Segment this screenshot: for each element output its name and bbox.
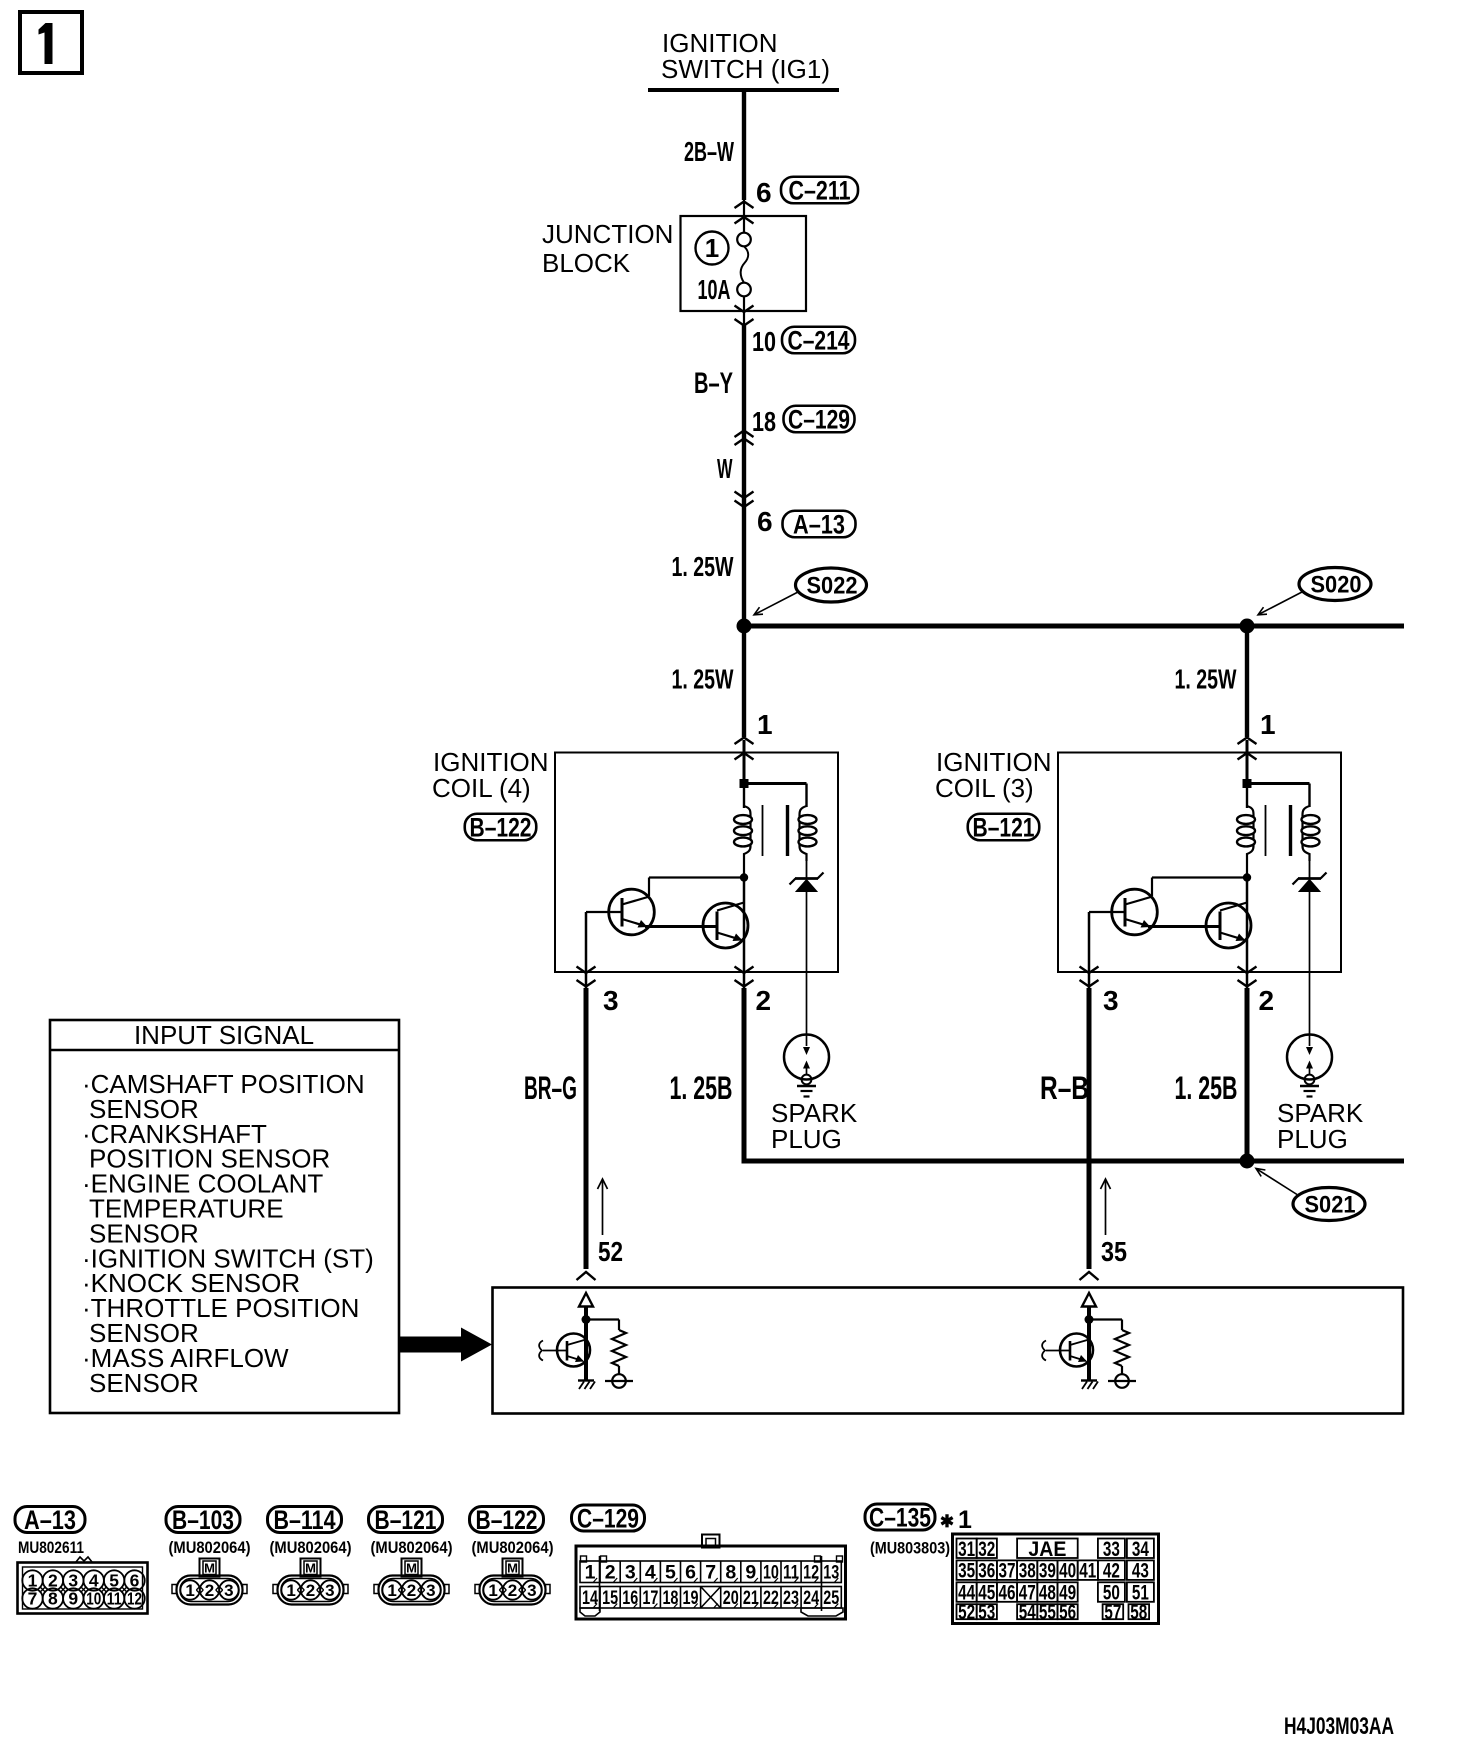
svg-text:6: 6 (757, 506, 773, 537)
svg-text:S021: S021 (1305, 1192, 1356, 1219)
svg-text:SENSOR: SENSOR (89, 1368, 199, 1398)
svg-text:H4J03M03AA: H4J03M03AA (1284, 1713, 1394, 1740)
svg-text:34: 34 (1132, 1538, 1149, 1561)
pin 52 arrow (602, 1180, 604, 1235)
svg-text:2: 2 (1259, 985, 1275, 1016)
svg-text:B–121: B–121 (375, 1505, 437, 1535)
connector B–121 (369, 1507, 443, 1533)
svg-text:8: 8 (48, 1589, 58, 1609)
svg-text:1. 25W: 1. 25W (1175, 664, 1237, 695)
svg-text:10A: 10A (698, 274, 731, 305)
junction block box (681, 216, 807, 311)
svg-text:PLUG: PLUG (1277, 1124, 1348, 1154)
svg-text:2: 2 (756, 985, 772, 1016)
svg-text:39: 39 (1039, 1560, 1056, 1583)
pin 3 wire (584, 988, 589, 1269)
label S020 (1299, 568, 1371, 601)
svg-text:(MU802064): (MU802064) (270, 1538, 352, 1557)
svg-text:35: 35 (1101, 1236, 1127, 1267)
svg-text:10: 10 (752, 326, 776, 357)
svg-text:5: 5 (665, 1562, 676, 1584)
svg-text:58: 58 (1130, 1601, 1147, 1624)
svg-text:46: 46 (999, 1582, 1016, 1605)
svg-text:32: 32 (978, 1538, 995, 1561)
ECU box (493, 1288, 1404, 1414)
svg-text:6: 6 (685, 1562, 696, 1584)
svg-text:6: 6 (756, 177, 772, 208)
svg-text:4: 4 (645, 1562, 656, 1584)
chassis ground (578, 1379, 594, 1381)
svg-text:3: 3 (527, 1581, 536, 1600)
primary winding (1246, 787, 1248, 808)
node (1085, 1315, 1094, 1324)
connector C-214 crossing (735, 306, 754, 313)
svg-text:1: 1 (185, 1581, 194, 1600)
svg-text:37: 37 (999, 1560, 1016, 1583)
secondary winding (800, 806, 807, 861)
page number box 1 (20, 12, 82, 73)
svg-text:1: 1 (585, 1562, 596, 1584)
ECU driver for coil 4 (pin 52) (539, 1293, 633, 1389)
svg-text:B–122: B–122 (470, 813, 532, 843)
svg-text:7: 7 (28, 1589, 38, 1609)
transistor (557, 1334, 590, 1367)
svg-text:2: 2 (306, 1581, 315, 1600)
zener diode (1309, 861, 1311, 878)
svg-text:B–Y: B–Y (694, 367, 733, 400)
svg-text:S022: S022 (807, 573, 858, 600)
bus wire top (744, 624, 1404, 629)
svg-text:43: 43 (1132, 1560, 1149, 1583)
svg-text:18: 18 (752, 406, 776, 437)
fuse 10A (743, 200, 745, 233)
bus wire bottom (742, 1159, 1405, 1164)
svg-text:36: 36 (978, 1560, 995, 1583)
svg-text:1: 1 (958, 1506, 972, 1534)
svg-text:3: 3 (625, 1562, 636, 1584)
connector A-13 (15, 1507, 85, 1533)
svg-text:A–13: A–13 (793, 510, 845, 540)
terminal circle (612, 1374, 626, 1388)
svg-text:(MU803803): (MU803803) (870, 1539, 950, 1558)
pin 2 crossing (1238, 967, 1257, 974)
svg-text:R–B: R–B (1040, 1070, 1089, 1106)
pin 1 crossing (1238, 738, 1257, 745)
lead to spark plug (1309, 891, 1311, 1046)
svg-text:COIL (4): COIL (4) (432, 773, 531, 803)
svg-text:B–114: B–114 (274, 1505, 336, 1535)
splice S022 node (737, 619, 752, 634)
driver trunk (1246, 878, 1249, 990)
driver trunk (743, 878, 746, 990)
ignition coil 3 circuit (1058, 738, 1341, 1281)
svg-text:1. 25B: 1. 25B (670, 1070, 733, 1106)
svg-text:40: 40 (1059, 1560, 1076, 1583)
connector B–122 (470, 1507, 544, 1533)
svg-text:3: 3 (426, 1581, 435, 1600)
splice S021 node (1240, 1154, 1255, 1169)
svg-text:W: W (717, 453, 733, 484)
connector C-129 crossing (735, 431, 754, 438)
svg-text:3: 3 (1103, 985, 1119, 1016)
svg-text:1: 1 (705, 233, 719, 263)
svg-text:42: 42 (1103, 1560, 1120, 1583)
input triangle (1082, 1293, 1096, 1307)
svg-text:1: 1 (286, 1581, 295, 1600)
svg-text:M: M (406, 1561, 417, 1576)
svg-text:MU802611: MU802611 (18, 1538, 84, 1557)
transformer core (1265, 805, 1267, 856)
svg-text:52: 52 (958, 1601, 975, 1624)
Q1 emitter to Q2 base (1148, 925, 1220, 928)
spark plug (1287, 1035, 1332, 1080)
svg-text:41: 41 (1079, 1560, 1096, 1583)
node square (740, 779, 749, 788)
svg-text:B–121: B–121 (973, 813, 1035, 843)
coil box (555, 753, 838, 973)
transistor Q1 (1112, 889, 1158, 935)
pin 3 wire (1087, 988, 1092, 1269)
svg-text:56: 56 (1059, 1601, 1076, 1624)
spark plug (784, 1035, 829, 1080)
svg-text:8: 8 (725, 1562, 736, 1584)
ECU connector crossing (577, 1272, 596, 1280)
svg-text:A–13: A–13 (24, 1505, 76, 1535)
pin 1 crossing (735, 738, 754, 745)
node dot primary/driver (1243, 873, 1251, 881)
svg-text:BLOCK: BLOCK (542, 248, 631, 278)
svg-text:(MU802064): (MU802064) (169, 1538, 251, 1557)
fuse 1 circled label (696, 232, 729, 265)
svg-text:52: 52 (598, 1236, 623, 1267)
connector C-135 (865, 1504, 935, 1530)
svg-text:INPUT SIGNAL: INPUT SIGNAL (134, 1020, 314, 1050)
terminal circle (1115, 1374, 1129, 1388)
resistor (618, 1320, 620, 1331)
connector B–103 (166, 1507, 240, 1533)
svg-text:B–103: B–103 (172, 1505, 234, 1535)
svg-text:38: 38 (1019, 1560, 1036, 1583)
svg-text:11: 11 (107, 1589, 122, 1609)
svg-text:C–211: C–211 (789, 176, 851, 206)
svg-text:2: 2 (605, 1562, 616, 1584)
pin 3 crossing (1080, 967, 1099, 974)
svg-text:✱: ✱ (940, 1512, 954, 1531)
svg-text:B–122: B–122 (476, 1505, 538, 1535)
coil box (1058, 753, 1341, 973)
svg-text:PLUG: PLUG (771, 1124, 842, 1154)
svg-text:33: 33 (1103, 1538, 1120, 1561)
wire to secondary (743, 782, 807, 785)
zener diode (806, 861, 808, 878)
svg-text:9: 9 (745, 1562, 756, 1584)
svg-text:1. 25W: 1. 25W (672, 664, 734, 695)
splice S020 node (1240, 619, 1255, 634)
svg-text:C–129: C–129 (577, 1504, 639, 1534)
connector C-129 (572, 1505, 645, 1531)
svg-text:1: 1 (387, 1581, 396, 1600)
pin 2 wire (742, 988, 747, 1159)
connector B–114 (268, 1507, 342, 1533)
svg-text:35: 35 (958, 1560, 975, 1583)
arrow input signal to ECU (399, 1328, 492, 1362)
svg-text:2: 2 (407, 1581, 416, 1600)
svg-text:55: 55 (1039, 1601, 1056, 1624)
primary winding (743, 787, 745, 808)
svg-text:1: 1 (1260, 709, 1276, 740)
lead to spark plug (806, 891, 808, 1046)
svg-text:7: 7 (705, 1562, 716, 1584)
svg-text:1: 1 (757, 709, 773, 740)
svg-text:SWITCH (IG1): SWITCH (IG1) (661, 54, 830, 84)
svg-text:M: M (305, 1561, 316, 1576)
ECU connector crossing (1080, 1272, 1099, 1280)
svg-text:53: 53 (978, 1601, 995, 1624)
chassis ground (1081, 1379, 1097, 1381)
svg-text:S020: S020 (1311, 572, 1362, 599)
connector A-13 crossing (735, 492, 754, 499)
svg-text:C–129: C–129 (788, 405, 850, 435)
wire 2B-W (742, 90, 746, 200)
input triangle (579, 1293, 593, 1307)
svg-text:M: M (204, 1561, 215, 1576)
svg-text:2: 2 (205, 1581, 214, 1600)
node square (1243, 779, 1252, 788)
label S022 (796, 568, 867, 602)
svg-text:3: 3 (325, 1581, 334, 1600)
wire 1.25W to coil 4 (742, 626, 746, 737)
transistor (1060, 1334, 1093, 1367)
transformer core (762, 805, 764, 856)
svg-text:12: 12 (127, 1589, 142, 1609)
Q1 emitter to Q2 base (645, 925, 717, 928)
svg-text:9: 9 (68, 1589, 78, 1609)
svg-text:57: 57 (1104, 1601, 1121, 1624)
svg-text:JAE: JAE (1028, 1538, 1066, 1561)
pin 3 crossing (577, 967, 596, 974)
pin 2 crossing (735, 967, 754, 974)
label S021 (1293, 1188, 1365, 1221)
transistor Q1 (609, 889, 655, 935)
svg-text:JUNCTION: JUNCTION (542, 219, 673, 249)
svg-text:1. 25W: 1. 25W (672, 551, 734, 582)
svg-text:COIL (3): COIL (3) (935, 773, 1034, 803)
svg-text:(MU802064): (MU802064) (371, 1538, 453, 1557)
svg-text:BR–G: BR–G (524, 1070, 577, 1106)
resistor (1121, 1320, 1123, 1331)
svg-text:M: M (507, 1561, 518, 1576)
svg-text:54: 54 (1019, 1601, 1036, 1624)
svg-text:C–214: C–214 (788, 326, 850, 356)
ignition coil 4 circuit (555, 738, 838, 1281)
svg-text:1. 25B: 1. 25B (1175, 1070, 1238, 1106)
ECU driver for coil 3 (pin 35) (1042, 1293, 1136, 1389)
wire 1.25W to coil 3 (1245, 626, 1249, 737)
transistor Q2 (703, 903, 748, 948)
transistor Q2 (1206, 903, 1251, 948)
wire B-Y (742, 326, 746, 627)
node (582, 1315, 591, 1324)
svg-text:1: 1 (488, 1581, 497, 1600)
svg-text:2B–W: 2B–W (684, 136, 734, 167)
pin 35 arrow (1105, 1180, 1107, 1235)
pin 2 wire (1245, 988, 1250, 1159)
connector C-211 crossing (735, 202, 754, 209)
svg-text:C–135: C–135 (869, 1503, 931, 1533)
wire to secondary (1246, 782, 1310, 785)
svg-text:10: 10 (86, 1589, 101, 1609)
svg-text:2: 2 (508, 1581, 517, 1600)
svg-text:3: 3 (603, 985, 619, 1016)
secondary winding (1303, 806, 1310, 861)
svg-text:31: 31 (958, 1538, 975, 1561)
svg-text:(MU802064): (MU802064) (472, 1538, 554, 1557)
svg-text:3: 3 (224, 1581, 233, 1600)
input signal box (50, 1020, 399, 1413)
node dot primary/driver (740, 873, 748, 881)
